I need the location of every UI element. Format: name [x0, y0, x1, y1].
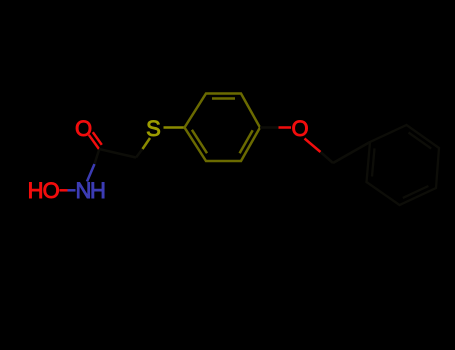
- ring 2 inner double bond bottom: [403, 186, 429, 198]
- atom label S (thioether sulfur): [146, 116, 161, 141]
- double bond C1=O line 2: [93, 132, 102, 145]
- bond N-C1 (dark carbon half): [95, 150, 100, 164]
- bond ring-O (red half): [279, 126, 292, 129]
- ring 2 inner double bond upper-right: [409, 133, 432, 149]
- bond CH2benzyl-ipso (dark): [333, 142, 370, 163]
- benzene ring 1 (para-phenylene, dim olive): [185, 94, 261, 162]
- bond O-CH2benzyl (dark half): [321, 152, 334, 163]
- atom label HO (hydroxylamine oxygen): [28, 178, 60, 203]
- atom label O (ether oxygen): [291, 116, 308, 141]
- bond CH2-S (olive half): [143, 138, 151, 149]
- svg-text:S: S: [146, 116, 161, 141]
- bond O-N (blue half): [68, 189, 76, 192]
- bond O-N (red half): [60, 189, 68, 192]
- ring 1 inner double bond lower-right: [240, 130, 253, 153]
- svg-text:O: O: [43, 178, 60, 203]
- svg-text:O: O: [291, 116, 308, 141]
- double bond C1=O line 1: [89, 135, 99, 149]
- svg-text:N: N: [76, 178, 92, 203]
- benzene ring 2 (benzyl phenyl, near-invisible dark): [367, 125, 440, 205]
- bond C1-CH2 (dark): [99, 149, 136, 158]
- bond CH2-S (dark half): [136, 149, 143, 158]
- atom label O (carbonyl oxygen): [75, 116, 92, 141]
- bond S-ring (olive): [164, 126, 185, 129]
- atom label NH (amide nitrogen): [76, 178, 106, 203]
- bond ring-O (dark carbon half): [260, 126, 279, 129]
- ring 1 inner double bond top: [212, 97, 235, 100]
- bond N-C1 (blue half): [87, 164, 95, 182]
- ring 2 inner double bond left: [372, 148, 375, 176]
- bond O-CH2benzyl (red half): [305, 139, 321, 153]
- svg-text:H: H: [90, 178, 106, 203]
- ring 1 inner double bond lower-left: [192, 130, 207, 153]
- svg-text:H: H: [28, 178, 44, 203]
